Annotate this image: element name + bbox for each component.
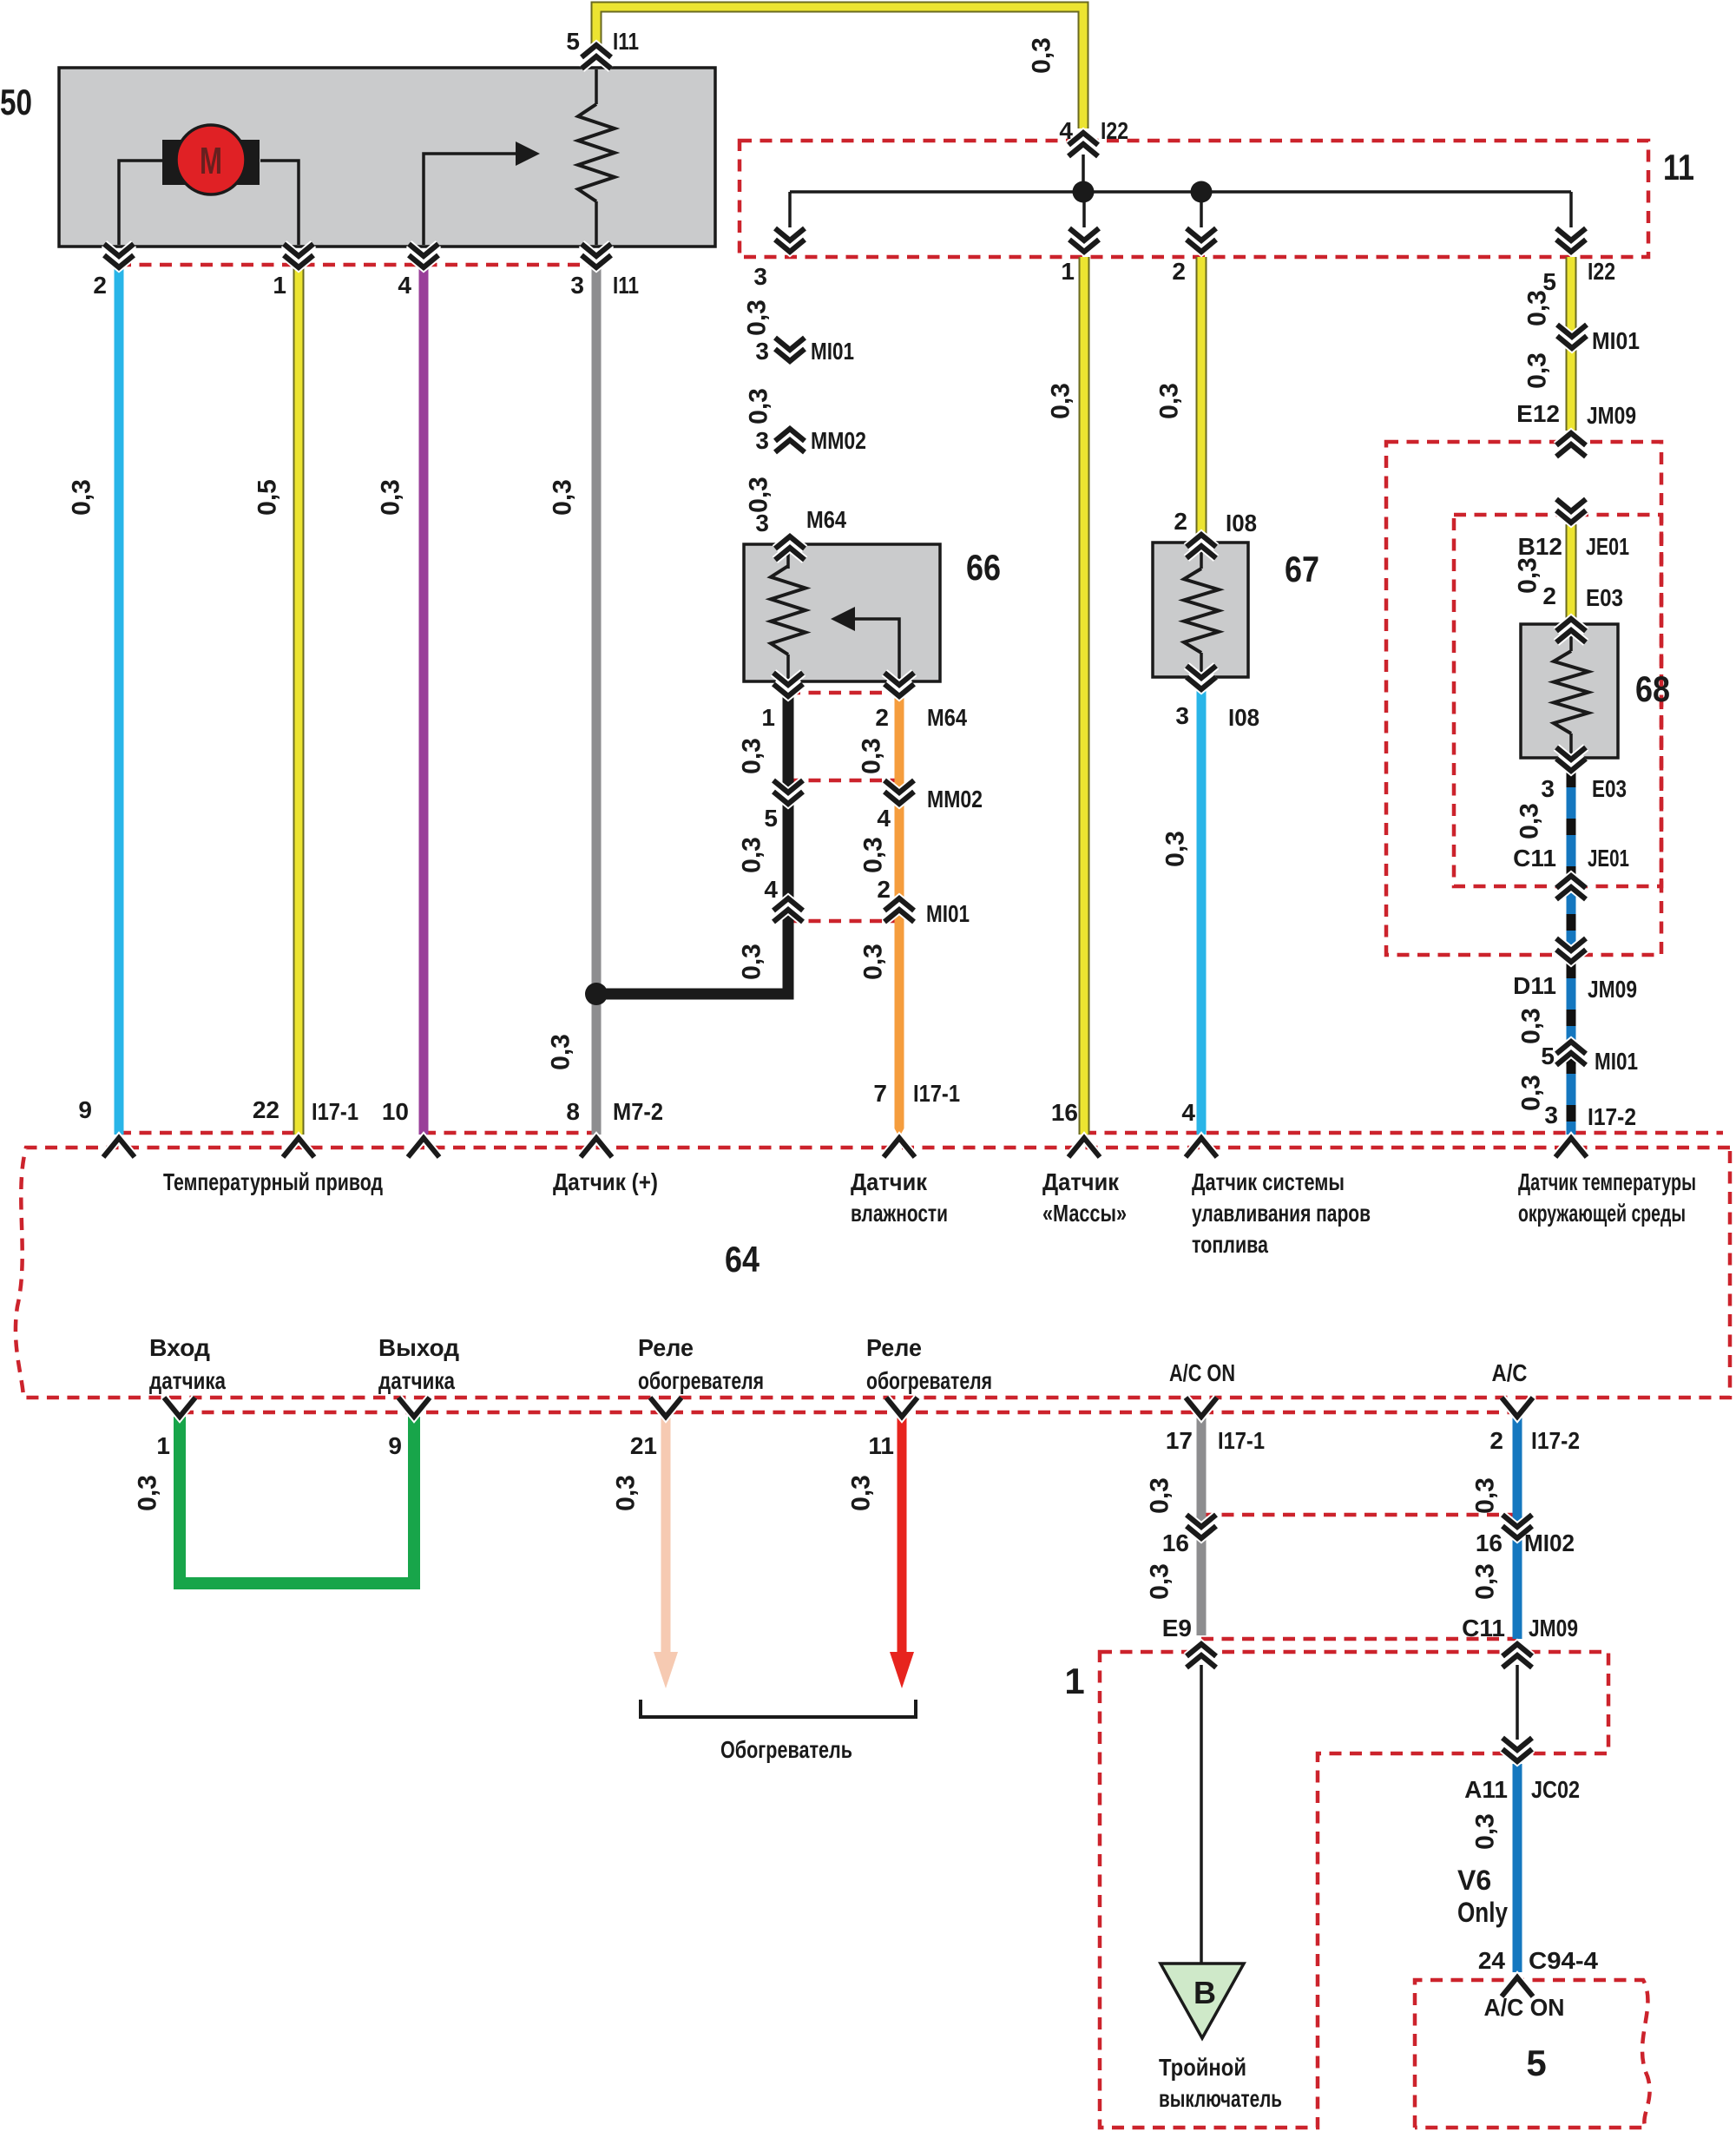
svg-text:1: 1 [1061, 258, 1075, 285]
svg-text:7: 7 [873, 1080, 887, 1107]
svg-text:0,3: 0,3 [847, 1475, 876, 1511]
svg-text:0,3: 0,3 [859, 837, 888, 873]
svg-text:0,5: 0,5 [253, 479, 282, 516]
svg-text:I22: I22 [1588, 258, 1615, 285]
svg-text:3: 3 [755, 427, 769, 454]
svg-text:M64: M64 [806, 506, 846, 533]
svg-text:3: 3 [753, 263, 767, 290]
svg-text:5: 5 [566, 28, 580, 55]
svg-text:3: 3 [755, 338, 769, 365]
svg-text:Only: Only [1457, 1897, 1508, 1928]
svg-text:«Массы»: «Массы» [1042, 1200, 1127, 1227]
svg-text:Датчик: Датчик [851, 1168, 928, 1195]
svg-text:2: 2 [877, 876, 891, 903]
svg-text:B12: B12 [1518, 533, 1562, 560]
svg-text:V6: V6 [1457, 1865, 1491, 1896]
svg-text:0,3: 0,3 [1047, 383, 1075, 419]
svg-text:11: 11 [1663, 147, 1694, 187]
svg-text:MI01: MI01 [811, 338, 854, 365]
svg-text:0,3: 0,3 [738, 738, 766, 774]
svg-text:0,3: 0,3 [1028, 37, 1056, 74]
svg-text:0,3: 0,3 [1523, 352, 1552, 389]
svg-text:обогревателя: обогревателя [866, 1367, 992, 1394]
svg-text:0,3: 0,3 [859, 944, 888, 980]
svg-text:JM09: JM09 [1529, 1615, 1578, 1641]
svg-text:Датчик системы: Датчик системы [1192, 1168, 1345, 1195]
svg-text:Обогреватель: Обогреватель [720, 1736, 852, 1763]
svg-text:I17-1: I17-1 [1218, 1427, 1265, 1454]
svg-text:17: 17 [1166, 1427, 1193, 1454]
svg-text:MM02: MM02 [811, 427, 866, 454]
svg-text:Реле: Реле [866, 1334, 922, 1361]
svg-text:0,3: 0,3 [1523, 290, 1552, 326]
svg-text:датчика: датчика [149, 1367, 226, 1394]
svg-text:0,3: 0,3 [547, 1034, 575, 1070]
svg-text:I17-2: I17-2 [1531, 1427, 1580, 1454]
svg-text:0,3: 0,3 [68, 479, 96, 516]
svg-text:1: 1 [1064, 1661, 1084, 1701]
svg-text:4: 4 [1181, 1099, 1195, 1126]
svg-text:0,3: 0,3 [1146, 1477, 1174, 1514]
svg-text:MI01: MI01 [1592, 327, 1640, 354]
svg-text:C11: C11 [1513, 845, 1556, 872]
svg-text:I11: I11 [613, 28, 639, 55]
svg-text:2: 2 [875, 704, 889, 731]
svg-text:0,3: 0,3 [377, 479, 405, 516]
svg-text:I17-1: I17-1 [312, 1098, 358, 1125]
svg-text:67: 67 [1285, 549, 1319, 589]
svg-text:2: 2 [1172, 258, 1186, 285]
svg-text:B: B [1193, 1975, 1216, 2010]
svg-text:5: 5 [764, 805, 778, 832]
svg-text:M7-2: M7-2 [613, 1098, 663, 1125]
svg-text:0,3: 0,3 [858, 738, 886, 774]
svg-text:топлива: топлива [1192, 1231, 1268, 1258]
svg-text:4: 4 [764, 876, 778, 903]
svg-text:A/C ON: A/C ON [1484, 1994, 1565, 2021]
svg-text:Датчик: Датчик [1042, 1168, 1120, 1195]
svg-text:выключатель: выключатель [1159, 2085, 1282, 2112]
svg-text:Выход: Выход [378, 1334, 459, 1361]
svg-text:16: 16 [1476, 1529, 1503, 1556]
svg-text:5: 5 [1541, 1043, 1555, 1069]
svg-text:M64: M64 [927, 704, 967, 731]
svg-text:E03: E03 [1592, 775, 1627, 802]
svg-text:A11: A11 [1464, 1776, 1508, 1803]
svg-text:21: 21 [630, 1432, 657, 1459]
svg-text:4: 4 [1059, 117, 1073, 144]
svg-text:3: 3 [1175, 702, 1189, 729]
svg-text:8: 8 [566, 1098, 580, 1125]
svg-text:влажности: влажности [851, 1200, 948, 1227]
svg-text:Температурный привод: Температурный привод [163, 1168, 383, 1195]
svg-text:0,3: 0,3 [1517, 1075, 1546, 1111]
svg-text:1: 1 [761, 704, 775, 731]
svg-text:0,3: 0,3 [1516, 803, 1544, 839]
svg-text:0,3: 0,3 [612, 1475, 641, 1511]
svg-text:64: 64 [725, 1239, 760, 1280]
svg-text:2: 2 [93, 272, 107, 299]
svg-text:MI02: MI02 [1524, 1529, 1575, 1556]
svg-text:0,3: 0,3 [745, 388, 773, 424]
svg-text:16: 16 [1162, 1529, 1189, 1556]
svg-text:3: 3 [570, 272, 584, 299]
svg-text:2: 2 [1542, 582, 1556, 609]
svg-text:2: 2 [1174, 508, 1187, 535]
svg-text:JM09: JM09 [1588, 976, 1637, 1003]
svg-text:MM02: MM02 [927, 786, 983, 812]
svg-text:D11: D11 [1513, 972, 1556, 999]
svg-text:A/C ON: A/C ON [1169, 1359, 1235, 1386]
svg-text:16: 16 [1051, 1099, 1078, 1126]
svg-text:Реле: Реле [638, 1334, 694, 1361]
svg-text:0,3: 0,3 [1471, 1813, 1500, 1850]
svg-text:0,3: 0,3 [1155, 383, 1184, 419]
svg-text:E03: E03 [1586, 584, 1623, 611]
svg-text:0,3: 0,3 [134, 1475, 162, 1511]
svg-text:0,3: 0,3 [549, 479, 577, 516]
svg-text:JM09: JM09 [1587, 402, 1636, 429]
svg-text:0,3: 0,3 [1471, 1563, 1500, 1600]
svg-text:3: 3 [1544, 1102, 1558, 1128]
svg-text:0,3: 0,3 [1514, 557, 1542, 594]
svg-text:окружающей среды: окружающей среды [1518, 1200, 1686, 1227]
svg-text:1: 1 [156, 1432, 170, 1459]
svg-text:E12: E12 [1516, 400, 1560, 427]
svg-text:I22: I22 [1101, 117, 1128, 144]
svg-text:50: 50 [0, 82, 32, 122]
svg-text:2: 2 [1489, 1427, 1503, 1454]
svg-text:M: M [200, 140, 222, 182]
svg-text:улавливания паров: улавливания паров [1192, 1200, 1371, 1227]
svg-text:0,3: 0,3 [743, 299, 772, 336]
svg-text:JE01: JE01 [1586, 533, 1629, 560]
svg-text:22: 22 [253, 1096, 279, 1123]
svg-text:4: 4 [398, 272, 411, 299]
svg-text:9: 9 [388, 1432, 402, 1459]
svg-text:0,3: 0,3 [745, 477, 773, 513]
svg-text:MI01: MI01 [1595, 1048, 1638, 1075]
svg-text:обогревателя: обогревателя [638, 1367, 764, 1394]
svg-text:68: 68 [1635, 668, 1670, 709]
svg-text:Датчик (+): Датчик (+) [553, 1168, 658, 1195]
svg-text:Тройной: Тройной [1159, 2054, 1246, 2081]
svg-text:0,3: 0,3 [738, 837, 766, 873]
svg-text:MI01: MI01 [926, 900, 970, 927]
svg-text:5: 5 [1526, 2043, 1546, 2083]
svg-text:0,3: 0,3 [1161, 831, 1190, 867]
svg-text:A/C: A/C [1492, 1359, 1528, 1386]
svg-text:C94-4: C94-4 [1529, 1947, 1598, 1974]
svg-text:Датчик температуры: Датчик температуры [1518, 1168, 1696, 1195]
svg-text:I17-1: I17-1 [913, 1080, 960, 1107]
svg-text:0,3: 0,3 [1517, 1008, 1546, 1044]
svg-text:датчика: датчика [378, 1367, 455, 1394]
svg-text:1: 1 [273, 272, 286, 299]
svg-text:JE01: JE01 [1588, 845, 1629, 872]
svg-text:0,3: 0,3 [1471, 1477, 1500, 1514]
svg-text:11: 11 [868, 1432, 894, 1459]
svg-text:I17-2: I17-2 [1588, 1103, 1636, 1130]
svg-text:0,3: 0,3 [738, 944, 766, 980]
svg-text:24: 24 [1478, 1947, 1506, 1974]
svg-text:Вход: Вход [149, 1334, 210, 1361]
svg-text:JC02: JC02 [1531, 1776, 1580, 1803]
svg-text:I11: I11 [613, 272, 639, 299]
svg-text:66: 66 [966, 547, 1001, 588]
svg-text:3: 3 [755, 510, 769, 536]
svg-text:10: 10 [382, 1098, 409, 1125]
svg-text:E9: E9 [1162, 1615, 1192, 1641]
svg-text:0,3: 0,3 [1146, 1563, 1174, 1600]
svg-text:9: 9 [78, 1096, 92, 1123]
svg-text:I08: I08 [1228, 704, 1259, 731]
svg-text:C11: C11 [1462, 1615, 1505, 1641]
svg-text:3: 3 [1541, 775, 1555, 802]
svg-text:I08: I08 [1226, 510, 1257, 536]
svg-text:4: 4 [877, 805, 891, 832]
